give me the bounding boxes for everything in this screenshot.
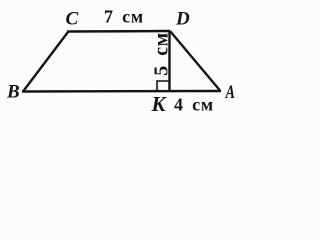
side DA bbox=[170, 31, 220, 91]
right angle mark at K bbox=[157, 81, 169, 90]
svg-text:5 см: 5 см bbox=[151, 32, 173, 76]
svg-text:K: K bbox=[151, 92, 168, 116]
svg-text:4 см: 4 см bbox=[174, 95, 214, 115]
side BA (bottom) bbox=[22, 90, 221, 93]
side CD (top, 7 см) bbox=[67, 30, 170, 33]
svg-text:C: C bbox=[66, 9, 79, 30]
height DK bbox=[168, 31, 170, 91]
svg-text:7 см: 7 см bbox=[104, 7, 144, 27]
svg-text:D: D bbox=[175, 9, 190, 30]
side BC bbox=[23, 32, 68, 92]
svg-text:A: A bbox=[225, 82, 235, 103]
svg-text:B: B bbox=[6, 82, 20, 103]
